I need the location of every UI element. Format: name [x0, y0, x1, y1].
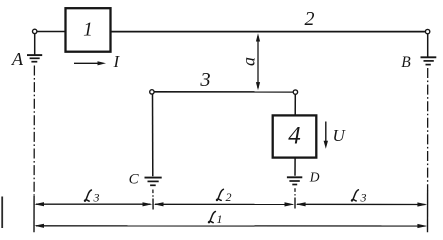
node B [425, 29, 429, 33]
ground D [287, 177, 302, 184]
node A [33, 29, 37, 33]
svg-text:3: 3 [199, 69, 210, 91]
ground B lead [427, 34, 429, 57]
wire D branch down to box 4 [294, 94, 296, 115]
dimension arrow a [239, 33, 260, 90]
wire 3 [154, 91, 293, 93]
dimension line l1 [34, 212, 427, 229]
box 1 [66, 8, 111, 52]
ground A [27, 55, 42, 62]
svg-text:a: a [239, 57, 259, 66]
svg-text:4: 4 [288, 123, 301, 150]
dimension line l3 right [296, 190, 427, 207]
wire C branch down [152, 94, 154, 176]
svg-text:2: 2 [226, 190, 232, 204]
extension line from D (dash-dot) [294, 188, 296, 197]
wire box 4 to ground D [294, 158, 296, 176]
voltage arrow U [324, 122, 347, 149]
node at D branch [293, 90, 297, 94]
wire A to box 1 [37, 31, 65, 33]
ground C [145, 178, 162, 186]
svg-text:A: A [11, 49, 24, 69]
extension line from B (dash-dot) [427, 68, 429, 190]
svg-text:3: 3 [360, 190, 367, 204]
extension line from A (dash-dot) [33, 66, 35, 197]
svg-text:B: B [401, 54, 411, 71]
node at C branch [150, 90, 154, 94]
dimension line l3 left [34, 190, 152, 206]
svg-text:U: U [333, 126, 347, 145]
svg-text:1: 1 [83, 19, 93, 40]
ground B [421, 57, 437, 64]
box 4 [273, 115, 317, 157]
svg-text:3: 3 [93, 191, 100, 205]
page edge mark [1, 197, 3, 229]
dimension line l2 [154, 189, 295, 206]
extension line from C (dash-dot) [152, 190, 154, 199]
ground A lead [34, 34, 36, 55]
current arrow I [74, 52, 120, 71]
svg-text:2: 2 [305, 8, 315, 30]
svg-text:1: 1 [217, 212, 223, 226]
svg-text:C: C [129, 172, 140, 188]
wire 2 [111, 31, 426, 33]
svg-text:D: D [309, 170, 320, 185]
